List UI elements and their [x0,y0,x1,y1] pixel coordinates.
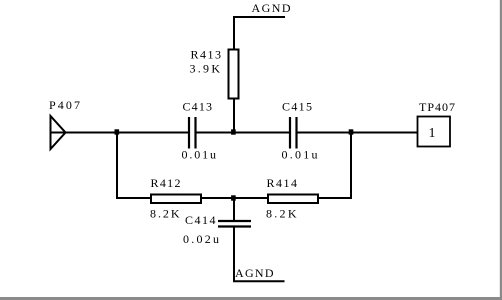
svg-text:R413: R413 [191,48,222,62]
svg-text:0.02u: 0.02u [183,232,219,246]
net AGND (top) [233,1,291,17]
svg-text:C415: C415 [282,99,312,113]
wire main horizontal P407 to C413 [58,132,188,134]
wire C413 to C415 [197,132,290,134]
resistor R414 [266,176,318,221]
wire node D down to C414 [233,198,235,220]
svg-text:0.01u: 0.01u [182,148,217,162]
wire R412 to node D [201,197,234,199]
wire lower-left horizontal to R412 [116,197,151,199]
svg-text:R414: R414 [267,176,298,190]
capacitor C414 [183,213,251,246]
wire AGND to R413 top [233,16,235,50]
wire C415 to TP407 [298,132,418,134]
window border right [500,0,502,300]
junction node D (C414 tap) [231,195,236,200]
svg-text:C414: C414 [185,213,216,227]
svg-text:8.2K: 8.2K [266,207,297,221]
testpoint TP407 [418,100,456,147]
capacitor C415 [282,99,318,161]
resistor R413 [190,48,239,99]
net AGND (bottom) [233,266,285,281]
wire R414 right then up to node C [318,133,351,199]
window border bottom [0,297,502,300]
svg-text:TP407: TP407 [419,100,455,114]
junction node C (right, to lower branch) [349,129,354,134]
port P407 [49,98,80,149]
svg-text:8.2K: 8.2K [150,207,180,221]
resistor R412 [150,176,201,221]
svg-text:AGND: AGND [235,266,274,280]
svg-text:1: 1 [429,126,436,141]
wire R413 bottom to main node [233,98,235,132]
junction node B (center, R413 to main wire) [231,129,236,134]
wire node D to R414 [234,197,268,199]
svg-text:C413: C413 [183,99,213,113]
svg-text:AGND: AGND [252,1,291,15]
capacitor C413 [182,99,217,161]
svg-text:3.9K: 3.9K [190,62,221,76]
wire C414 to AGND (bottom) [233,228,235,282]
wire left vertical down from node A [116,133,118,199]
junction node A (left, to lower branch) [115,129,120,134]
svg-text:0.01u: 0.01u [282,148,318,162]
svg-text:R412: R412 [151,176,181,190]
